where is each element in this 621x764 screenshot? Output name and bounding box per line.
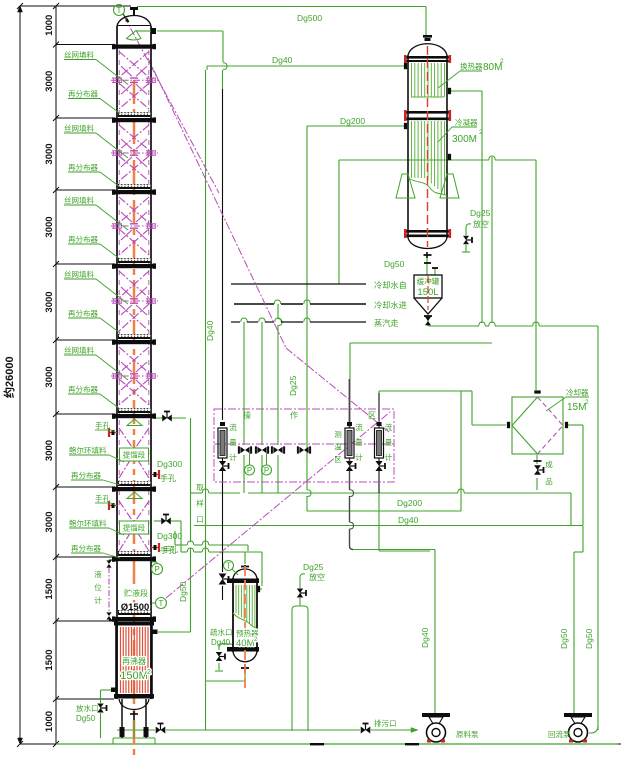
pipe condenser bottom to buffer tank xyxy=(426,258,428,275)
packing X section 5 xyxy=(119,347,149,373)
pipe raw pump suction x598 bend xyxy=(589,726,598,733)
flange at 617 xyxy=(114,617,155,621)
svg-text:Dg40: Dg40 xyxy=(420,627,430,648)
svg-text:口: 口 xyxy=(196,515,204,524)
svg-text:丝网填料: 丝网填料 xyxy=(64,195,94,205)
svg-text:300M: 300M xyxy=(452,134,477,145)
svg-text:T: T xyxy=(159,599,164,608)
preheater bottom tubesheet xyxy=(227,647,259,652)
packing X section 1 xyxy=(119,52,149,78)
svg-text:流: 流 xyxy=(355,422,363,432)
reboiler legs xyxy=(121,699,123,738)
preheater liquid curve xyxy=(233,613,257,629)
svg-text:计: 计 xyxy=(94,595,102,605)
svg-text:Dg25: Dg25 xyxy=(303,562,324,572)
svg-text:手孔: 手孔 xyxy=(95,493,110,503)
preheater bottom nozzle xyxy=(244,664,246,673)
column centerline (orange) xyxy=(133,80,136,757)
svg-text:丝网填料: 丝网填料 xyxy=(64,50,94,60)
handhole right Dg300 (red) xyxy=(158,470,160,479)
condenser liquid curve xyxy=(408,178,447,196)
svg-text:区: 区 xyxy=(334,455,342,464)
packing X section 4 xyxy=(119,271,149,298)
section name box xyxy=(120,448,149,461)
svg-text:丝网填料: 丝网填料 xyxy=(64,123,94,133)
cooler top nozzle xyxy=(534,390,540,393)
pump P1 raw material xyxy=(422,713,450,717)
reboiler drain nozzle left xyxy=(111,688,117,693)
support plate at 190 xyxy=(118,184,150,189)
reboiler bottom head xyxy=(119,699,149,710)
flowmeter FI-3 valve xyxy=(375,461,382,471)
blowdown valve near column xyxy=(156,727,166,734)
instrument signal D2 xyxy=(124,16,219,193)
pipe preheater trap Dg40 xyxy=(219,643,233,645)
packing X section 3 xyxy=(119,197,149,223)
pipe buffer tank to header xyxy=(427,318,429,326)
flowmeter FI-2 valve xyxy=(346,461,353,471)
svg-text:1500: 1500 xyxy=(44,578,55,599)
svg-text:操: 操 xyxy=(243,410,251,420)
pipe blowdown line y730 xyxy=(117,729,155,731)
svg-text:约26000: 约26000 xyxy=(2,356,16,398)
svg-text:手孔: 手孔 xyxy=(163,544,178,554)
condenser tubes section2 xyxy=(411,121,413,178)
column top nozzle xyxy=(130,7,138,10)
svg-text:3000: 3000 xyxy=(44,216,55,237)
svg-text:2: 2 xyxy=(585,399,589,406)
zone divider dashline xyxy=(214,443,394,445)
svg-text:量: 量 xyxy=(229,438,237,447)
support plate at 414 xyxy=(118,408,150,413)
flowmeter FI-1 valve xyxy=(219,461,226,471)
reboiler steam nozzle right xyxy=(152,630,158,635)
svg-text:放水口: 放水口 xyxy=(76,703,99,713)
cooler product valve xyxy=(534,460,542,462)
steam trap valve Dg40 xyxy=(216,652,222,661)
svg-text:回流泵: 回流泵 xyxy=(548,729,571,739)
svg-text:T: T xyxy=(117,6,122,15)
reboiler bottom tubesheet xyxy=(114,694,154,699)
svg-text:冷却水自: 冷却水自 xyxy=(374,280,407,290)
svg-text:P: P xyxy=(264,466,269,475)
svg-text:1500: 1500 xyxy=(44,649,55,670)
svg-text:Dg40: Dg40 xyxy=(398,515,419,525)
condenser nozzles right xyxy=(448,88,451,94)
cooler left nozzle xyxy=(507,422,510,428)
svg-text:排污口: 排污口 xyxy=(374,718,397,728)
buffer tank outlet valve xyxy=(424,315,432,317)
pump P2 reflux xyxy=(564,713,592,717)
dimension section boundary lines and ticks xyxy=(56,5,131,7)
svg-text:手孔: 手孔 xyxy=(95,420,110,430)
preheater tubes xyxy=(235,585,237,613)
svg-text:Dg50: Dg50 xyxy=(384,259,405,269)
section name box xyxy=(120,521,149,534)
pipe rotameter B x379 (black) xyxy=(378,393,380,428)
dimension outer line 26000 xyxy=(19,6,21,744)
handhole right Dg300 (red) xyxy=(158,543,160,552)
pipe buffer tank outlet header y326 xyxy=(428,325,479,327)
svg-text:Dg40: Dg40 xyxy=(211,638,231,647)
flange at 118 xyxy=(114,118,155,122)
preheater E-40 shell xyxy=(232,578,234,652)
cooler diamond xyxy=(512,397,538,454)
drain valve x100 xyxy=(97,704,103,713)
svg-text:再分布器: 再分布器 xyxy=(68,308,98,318)
pipe CW supply branch x278 xyxy=(277,304,279,319)
pipe Dg40 riser x207 xyxy=(205,70,207,730)
svg-text:再分布器: 再分布器 xyxy=(71,543,101,553)
pipe vent stack Dg25 xyxy=(292,606,308,731)
preheater red centerline xyxy=(244,566,246,688)
condenser support brackets xyxy=(396,174,415,198)
svg-text:再分布器: 再分布器 xyxy=(68,89,98,99)
svg-text:再分布器: 再分布器 xyxy=(71,470,101,480)
svg-text:P: P xyxy=(154,565,159,574)
level gauge (magenta) xyxy=(108,567,110,613)
pipe preheater bottom outlet xyxy=(244,673,246,681)
pipe steam condensate y343 xyxy=(350,342,492,344)
svg-text:2: 2 xyxy=(147,669,151,676)
svg-text:量: 量 xyxy=(355,438,363,447)
pipe column side line y545 xyxy=(175,544,187,546)
pipe Dg40 condenser inlet header xyxy=(207,65,405,67)
svg-text:品: 品 xyxy=(545,477,553,486)
flange at 487 xyxy=(114,487,155,491)
condenser top nozzle xyxy=(423,35,432,38)
svg-text:T: T xyxy=(226,562,231,571)
condenser top head xyxy=(408,44,447,55)
svg-text:放空: 放空 xyxy=(309,572,325,582)
svg-text:1000: 1000 xyxy=(44,711,55,732)
condenser tubesheet 1 xyxy=(405,56,450,59)
svg-text:计: 计 xyxy=(229,452,237,462)
svg-text:15M: 15M xyxy=(567,402,586,413)
svg-text:3000: 3000 xyxy=(44,143,55,164)
header cooling water return y284 xyxy=(231,283,366,285)
svg-text:手孔: 手孔 xyxy=(160,473,176,483)
cooler E-15 box xyxy=(512,397,563,454)
svg-text:150M: 150M xyxy=(120,670,148,682)
pipe steam branch x262 xyxy=(261,322,263,445)
svg-text:丝网填料: 丝网填料 xyxy=(64,269,94,279)
instrument signal D1 xyxy=(148,58,286,348)
buffer tank V-150 xyxy=(414,275,442,298)
pipe feed to raw pump y550 xyxy=(352,549,435,551)
condenser mid tubesheets xyxy=(405,111,450,114)
pipe reboiler drain x100 Dg50 xyxy=(101,689,113,691)
column top head xyxy=(117,16,151,27)
handhole left (red) xyxy=(108,428,110,437)
svg-text:取: 取 xyxy=(196,483,204,492)
svg-text:3000: 3000 xyxy=(44,511,55,532)
support plate at 340 xyxy=(118,334,150,339)
pipe demister outlet Dg40 branch xyxy=(157,30,223,32)
svg-text:2: 2 xyxy=(479,129,483,136)
pipe Dg200 run y511 xyxy=(307,510,461,512)
zone valves xyxy=(240,447,249,454)
svg-text:温: 温 xyxy=(334,443,342,452)
svg-text:Dg500: Dg500 xyxy=(297,13,322,23)
support plate at 615 xyxy=(118,610,150,615)
pipe flowmeter line x222 (black) xyxy=(222,70,224,89)
svg-text:区: 区 xyxy=(368,411,376,420)
support plate at 118 xyxy=(118,112,150,117)
pipe cooler feed riser x533 xyxy=(535,160,537,390)
pipe to reflux pump x583 xyxy=(582,526,584,553)
cooler right nozzle xyxy=(565,422,568,428)
svg-text:P: P xyxy=(247,466,252,475)
valve on column nozzle y418 xyxy=(162,415,172,422)
svg-text:放空: 放空 xyxy=(473,219,489,229)
flowmeter FI-2 xyxy=(345,428,354,458)
svg-text:Dg25: Dg25 xyxy=(470,208,491,218)
pipe cooler product inlet y391 xyxy=(379,390,461,392)
svg-text:换热器: 换热器 xyxy=(460,61,483,71)
preheater right nozzle xyxy=(257,586,260,592)
column edge magenta dashes xyxy=(118,50,120,548)
svg-text:疏水口: 疏水口 xyxy=(210,627,233,637)
svg-text:Dg300: Dg300 xyxy=(157,531,182,541)
pipe column valve to reboiler nozzle x191 xyxy=(156,417,186,419)
svg-text:量: 量 xyxy=(385,438,393,447)
svg-text:再沸器: 再沸器 xyxy=(122,656,146,666)
svg-text:3000: 3000 xyxy=(44,291,55,312)
svg-text:Dg50: Dg50 xyxy=(584,628,594,649)
stub on buffer line xyxy=(424,262,431,264)
pipe Dg500 column overhead to condenser xyxy=(137,6,426,8)
instrument signal D1b xyxy=(286,348,389,432)
condenser nozzles left xyxy=(404,63,407,69)
svg-text:3000: 3000 xyxy=(44,71,55,92)
flange at 190 xyxy=(114,190,155,194)
svg-text:再分布器: 再分布器 xyxy=(68,384,98,394)
svg-text:成: 成 xyxy=(545,459,553,469)
pipe riser to cooler x461 xyxy=(460,391,462,511)
svg-text:Dg50: Dg50 xyxy=(559,628,569,649)
temperature instrument TI xyxy=(152,602,155,604)
pipe rotameter B line green part xyxy=(378,493,380,551)
condenser bottom nozzle xyxy=(426,252,428,258)
flange at 44.5 xyxy=(114,45,155,49)
svg-text:冷却水进: 冷却水进 xyxy=(374,300,407,310)
reboiler top tubesheet xyxy=(114,622,154,626)
svg-text:流: 流 xyxy=(385,422,393,432)
flowmeter FI-3 xyxy=(375,428,384,458)
preheater top nozzle xyxy=(244,565,246,570)
pipe condenser right top nozzle xyxy=(451,90,482,92)
vent valve preheater Dg25 xyxy=(297,589,303,598)
pipe cooler product valve outlet xyxy=(536,455,538,464)
foundation pad under column xyxy=(108,738,160,744)
svg-text:计: 计 xyxy=(355,452,363,462)
header steam y322 xyxy=(231,321,240,323)
svg-text:40M: 40M xyxy=(236,638,255,649)
svg-text:计: 计 xyxy=(385,452,393,462)
reboiler bottom nozzle xyxy=(133,711,135,720)
flange at 340 xyxy=(114,340,155,344)
condenser E-300 shell xyxy=(407,55,409,238)
flange at 264 xyxy=(114,264,155,268)
pipe condenser vent Dg25 xyxy=(465,228,467,235)
demister triangle xyxy=(127,419,142,426)
svg-text:Dg300: Dg300 xyxy=(157,459,182,469)
packing X section 2 xyxy=(119,125,149,150)
pipe column bottoms to preheater y552 xyxy=(154,520,161,522)
svg-text:鲍尔环填料: 鲍尔环填料 xyxy=(69,445,107,455)
svg-text:测: 测 xyxy=(334,430,342,439)
dimension inner line xyxy=(55,6,57,744)
pipe Dg200 condenser to zone xyxy=(307,125,404,127)
svg-text:2: 2 xyxy=(500,58,504,65)
svg-text:Dg40: Dg40 xyxy=(272,55,293,65)
operation zone boundary box xyxy=(214,409,394,482)
svg-text:作: 作 xyxy=(290,410,298,420)
svg-text:液: 液 xyxy=(94,569,102,579)
flowmeter FI-1 xyxy=(218,428,227,458)
svg-text:提馏段: 提馏段 xyxy=(123,523,146,533)
svg-text:样: 样 xyxy=(196,498,204,508)
svg-text:3000: 3000 xyxy=(44,440,55,461)
svg-text:原料泵: 原料泵 xyxy=(456,729,479,739)
svg-text:冷却器: 冷却器 xyxy=(566,387,589,397)
svg-text:鲍尔环填料: 鲍尔环填料 xyxy=(69,518,107,528)
demister symbol top xyxy=(127,31,142,41)
packing V pattern xyxy=(119,428,134,450)
svg-text:流: 流 xyxy=(229,422,237,432)
svg-text:1000: 1000 xyxy=(44,15,55,36)
pressure gauges in zone xyxy=(249,453,251,465)
handhole left (red) xyxy=(108,501,110,510)
svg-text:Dg50: Dg50 xyxy=(178,581,188,602)
preheater bottom head xyxy=(233,652,257,662)
ground line xyxy=(56,743,618,745)
svg-text:提馏段: 提馏段 xyxy=(123,450,146,460)
condenser tubes section1 xyxy=(411,63,413,97)
svg-text:Dg200: Dg200 xyxy=(397,498,422,508)
pipe condenser CW outlet to return header xyxy=(339,159,489,161)
pipe feed line x349 (dark) xyxy=(349,379,351,428)
svg-text:Dg200: Dg200 xyxy=(340,116,365,126)
support plate at 264 xyxy=(118,258,150,263)
svg-text:冷凝器: 冷凝器 xyxy=(455,117,478,127)
valve on column bottoms y521 xyxy=(161,518,171,525)
preheater tubesheet top xyxy=(227,579,259,584)
svg-text:Dg40: Dg40 xyxy=(205,320,215,341)
pipe condenser right mid nozzle xyxy=(491,160,493,323)
blowdown arrow xyxy=(398,729,418,731)
temperature instrument TI preheater xyxy=(224,561,234,571)
header cooling water supply y304 xyxy=(234,303,274,305)
sampling valve x222 xyxy=(219,574,227,585)
pipe Dg40 run y525 to reflux pump xyxy=(194,525,583,527)
svg-text:再分布器: 再分布器 xyxy=(68,162,98,172)
svg-text:再分布器: 再分布器 xyxy=(68,234,98,244)
svg-text:蒸汽走: 蒸汽走 xyxy=(374,318,399,328)
pipe steam branch x244 xyxy=(243,322,245,445)
svg-text:位: 位 xyxy=(94,582,102,592)
pipe cooler outlet right xyxy=(567,424,583,426)
demister nozzle Dg40 xyxy=(151,28,156,34)
svg-text:丝网填料: 丝网填料 xyxy=(64,345,94,355)
condenser red centerline xyxy=(427,46,429,247)
preheater top head xyxy=(233,569,257,578)
support plate xyxy=(118,481,150,486)
svg-text:Dg50: Dg50 xyxy=(76,714,96,723)
column shell C1 xyxy=(116,26,118,699)
blowdown valve at outlet xyxy=(361,727,371,734)
svg-text:贮液段: 贮液段 xyxy=(124,588,148,598)
svg-text:Dg25: Dg25 xyxy=(288,375,298,396)
condenser vent valve xyxy=(463,236,469,244)
temperature instrument TI top xyxy=(114,5,125,16)
svg-text:3000: 3000 xyxy=(44,366,55,387)
demister triangle xyxy=(127,492,142,499)
pressure instrument PI xyxy=(152,561,157,563)
pipe line1 y493 to reflux pump xyxy=(191,492,202,494)
reboiler tubes xyxy=(120,627,122,693)
support plate xyxy=(118,551,150,556)
flange at 414 xyxy=(114,414,155,418)
condenser bottom tubesheet xyxy=(405,230,450,233)
reboiler E-150 shell xyxy=(115,621,118,699)
packing V pattern xyxy=(119,501,134,523)
condenser bottom head xyxy=(408,238,447,249)
flange at 557 xyxy=(114,557,155,561)
instrument signal D3 xyxy=(166,412,390,598)
